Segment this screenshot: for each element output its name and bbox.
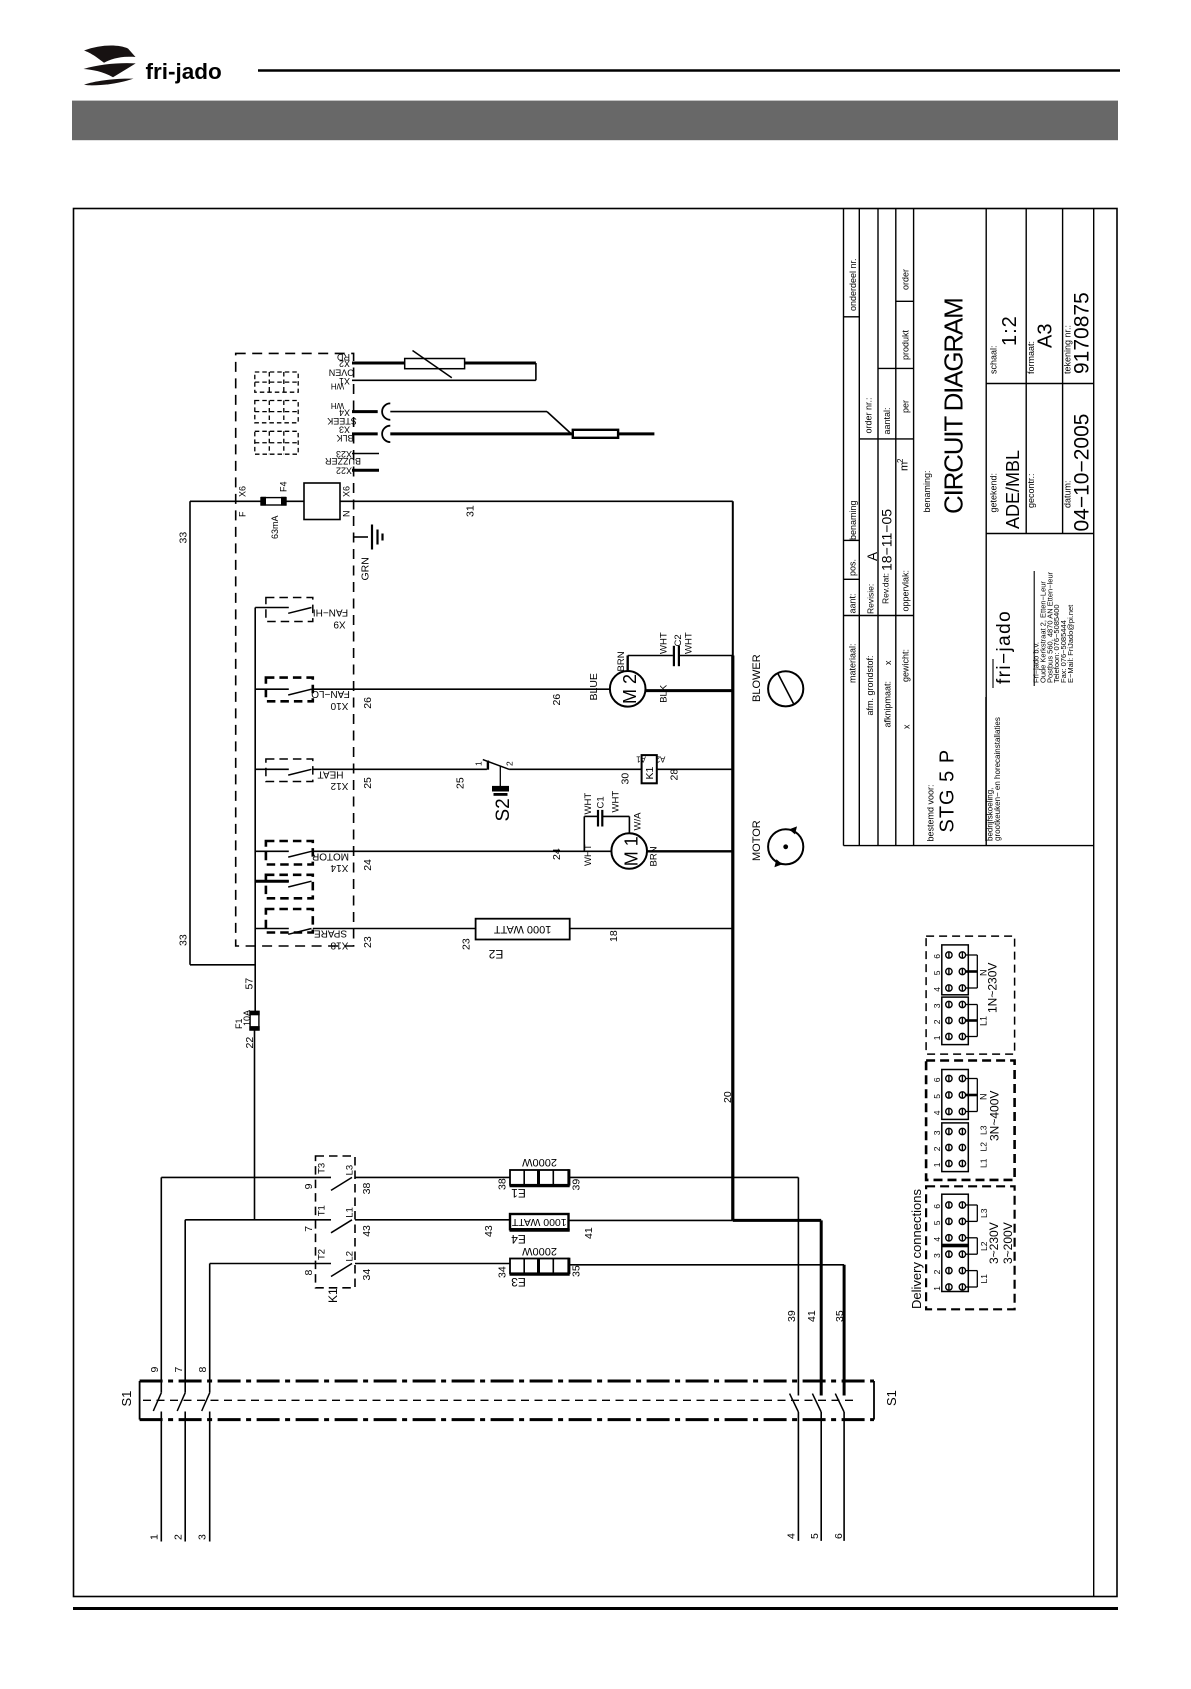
- svg-text:2: 2: [932, 1269, 942, 1274]
- svg-text:24: 24: [362, 859, 374, 871]
- svg-text:4: 4: [932, 987, 942, 992]
- svg-text:BLK: BLK: [336, 433, 353, 443]
- svg-text:3: 3: [197, 1534, 209, 1540]
- svg-text:S1: S1: [884, 1390, 899, 1406]
- svg-text:1N~230V: 1N~230V: [986, 963, 1000, 1013]
- svg-text:39: 39: [786, 1310, 798, 1322]
- svg-text:STEEK: STEEK: [327, 416, 357, 426]
- svg-text:STG 5 P: STG 5 P: [937, 749, 959, 833]
- svg-text:22: 22: [244, 1037, 256, 1049]
- svg-text:T1: T1: [317, 1205, 328, 1216]
- svg-text:X12: X12: [330, 780, 348, 791]
- svg-text:3~200V: 3~200V: [1001, 1222, 1015, 1264]
- svg-text:38: 38: [361, 1183, 373, 1195]
- svg-text:F4: F4: [279, 481, 289, 492]
- svg-text:T3: T3: [317, 1163, 328, 1174]
- svg-text:M 1: M 1: [622, 836, 642, 866]
- svg-text:2: 2: [896, 458, 905, 463]
- svg-text:1: 1: [932, 1035, 942, 1040]
- svg-text:pos.: pos.: [848, 559, 858, 576]
- svg-text:gewicht:: gewicht:: [901, 649, 911, 682]
- svg-text:25: 25: [455, 777, 467, 789]
- svg-text:5: 5: [932, 1220, 942, 1225]
- svg-text:WHT: WHT: [611, 791, 622, 813]
- svg-text:35: 35: [571, 1265, 583, 1277]
- svg-text:1: 1: [932, 1286, 942, 1291]
- svg-text:X6: X6: [238, 486, 248, 497]
- svg-text:WHT: WHT: [659, 632, 670, 654]
- svg-text:A2: A2: [655, 754, 665, 763]
- svg-text:2: 2: [505, 761, 515, 766]
- svg-text:L3: L3: [979, 1208, 989, 1218]
- svg-text:getekend:: getekend:: [989, 473, 999, 513]
- svg-text:L1: L1: [345, 1207, 356, 1218]
- svg-text:4: 4: [786, 1533, 798, 1539]
- svg-text:43: 43: [361, 1225, 373, 1237]
- svg-text:E4: E4: [511, 1232, 526, 1246]
- svg-text:7: 7: [173, 1367, 185, 1373]
- svg-text:9170875: 9170875: [1071, 292, 1094, 374]
- svg-text:L1: L1: [979, 1016, 989, 1026]
- svg-text:BUZZER: BUZZER: [324, 456, 361, 466]
- svg-text:grootkeuken− en horecainstalla: grootkeuken− en horecainstallaties: [993, 717, 1002, 841]
- svg-text:X9: X9: [333, 618, 346, 629]
- svg-text:9: 9: [149, 1367, 161, 1373]
- svg-text:X2: X2: [339, 359, 350, 369]
- svg-text:BRN: BRN: [649, 846, 660, 866]
- svg-text:31: 31: [465, 505, 477, 517]
- svg-text:6: 6: [932, 954, 942, 959]
- svg-text:FAN−HI: FAN−HI: [313, 606, 348, 617]
- svg-text:S2: S2: [493, 798, 514, 821]
- svg-text:WHT: WHT: [583, 844, 594, 866]
- svg-text:3: 3: [932, 1130, 942, 1135]
- svg-text:5: 5: [932, 1094, 942, 1099]
- svg-text:materiaal:: materiaal:: [848, 643, 858, 683]
- svg-text:aant:: aant:: [848, 593, 858, 613]
- svg-text:aantal:: aantal:: [882, 407, 892, 434]
- svg-text:33: 33: [178, 934, 190, 946]
- svg-text:18−11−05: 18−11−05: [879, 509, 895, 571]
- svg-text:S1: S1: [119, 1391, 134, 1407]
- svg-text:order: order: [901, 269, 911, 290]
- svg-text:GRN: GRN: [360, 557, 372, 580]
- svg-text:K1: K1: [326, 1288, 340, 1303]
- svg-text:K1: K1: [644, 766, 656, 779]
- svg-text:A1: A1: [636, 754, 646, 763]
- svg-text:L3: L3: [345, 1165, 356, 1176]
- svg-text:1000 WATT: 1000 WATT: [494, 923, 552, 935]
- svg-text:2: 2: [932, 1146, 942, 1151]
- svg-text:35: 35: [834, 1310, 846, 1322]
- svg-text:1: 1: [474, 761, 484, 766]
- svg-text:39: 39: [571, 1179, 583, 1191]
- svg-text:5: 5: [809, 1533, 821, 1539]
- svg-text:2: 2: [172, 1534, 184, 1540]
- svg-text:X10: X10: [330, 700, 348, 711]
- svg-text:schaal:: schaal:: [989, 345, 999, 374]
- svg-text:N: N: [342, 511, 352, 518]
- svg-text:33: 33: [178, 532, 190, 544]
- svg-text:43: 43: [483, 1225, 495, 1237]
- svg-text:A3: A3: [1035, 324, 1057, 348]
- svg-text:63mA: 63mA: [270, 515, 280, 539]
- svg-text:26: 26: [362, 697, 374, 709]
- svg-text:1: 1: [149, 1534, 161, 1540]
- svg-text:9: 9: [303, 1183, 315, 1189]
- svg-text:57: 57: [243, 978, 255, 990]
- svg-text:BLOWER: BLOWER: [751, 654, 763, 702]
- svg-text:6: 6: [833, 1533, 845, 1539]
- svg-text:WHT: WHT: [583, 793, 594, 815]
- svg-text:23: 23: [461, 938, 473, 950]
- svg-text:8: 8: [197, 1367, 209, 1373]
- svg-text:18: 18: [608, 930, 620, 942]
- svg-text:1:2: 1:2: [999, 315, 1021, 346]
- svg-text:41: 41: [583, 1227, 595, 1239]
- svg-text:X4: X4: [339, 407, 350, 417]
- svg-text:F: F: [238, 511, 248, 517]
- svg-text:W/A: W/A: [633, 812, 644, 831]
- svg-text:M 2: M 2: [620, 674, 640, 704]
- svg-text:WH: WH: [331, 381, 345, 390]
- svg-text:BRN: BRN: [616, 651, 627, 671]
- svg-text:4: 4: [932, 1110, 942, 1115]
- svg-text:10A: 10A: [242, 1010, 252, 1026]
- svg-text:BLUE: BLUE: [588, 673, 600, 700]
- svg-text:fri−jado: fri−jado: [994, 610, 1015, 684]
- svg-text:3: 3: [932, 1003, 942, 1008]
- svg-text:X18: X18: [330, 939, 348, 950]
- svg-text:L2: L2: [978, 1142, 988, 1152]
- svg-text:8: 8: [303, 1270, 315, 1276]
- svg-text:Rev.dat:: Rev.dat:: [881, 573, 891, 604]
- svg-text:X14: X14: [330, 862, 348, 873]
- svg-text:bestemd voor:: bestemd voor:: [926, 784, 936, 841]
- svg-text:E3: E3: [511, 1275, 526, 1289]
- svg-text:34: 34: [497, 1266, 509, 1278]
- svg-text:38: 38: [497, 1178, 509, 1190]
- svg-text:1: 1: [932, 1162, 942, 1167]
- svg-text:per: per: [901, 400, 911, 413]
- svg-text:2000W: 2000W: [521, 1245, 556, 1257]
- svg-text:C2: C2: [673, 634, 684, 646]
- svg-text:onderdeel nr.: onderdeel nr.: [848, 258, 858, 311]
- svg-text:5: 5: [932, 970, 942, 975]
- svg-text:30: 30: [620, 773, 632, 785]
- svg-text:BLK: BLK: [659, 684, 670, 703]
- svg-text:X22: X22: [336, 466, 352, 476]
- svg-text:ADE/MBL: ADE/MBL: [1003, 450, 1023, 529]
- svg-text:OVEN: OVEN: [329, 368, 355, 378]
- svg-text:Revisie:: Revisie:: [866, 584, 876, 614]
- svg-text:3~230V: 3~230V: [987, 1222, 1001, 1264]
- svg-text:23: 23: [362, 936, 374, 948]
- svg-text:MOTOR: MOTOR: [751, 820, 763, 861]
- svg-text:X6: X6: [342, 486, 352, 497]
- svg-text:benaming: benaming: [848, 500, 858, 540]
- svg-text:gecontr.:: gecontr.:: [1026, 473, 1036, 508]
- svg-text:3: 3: [932, 1253, 942, 1258]
- svg-text:WHT: WHT: [684, 632, 695, 654]
- svg-text:afm. grondstof:: afm. grondstof:: [865, 655, 875, 715]
- svg-text:E2: E2: [488, 947, 503, 961]
- svg-text:04−10−2005: 04−10−2005: [1071, 414, 1094, 532]
- svg-text:L1: L1: [979, 1274, 989, 1284]
- svg-text:7: 7: [303, 1226, 315, 1232]
- svg-text:Delivery connections: Delivery connections: [909, 1189, 924, 1309]
- svg-text:26: 26: [551, 694, 563, 706]
- svg-text:T2: T2: [317, 1249, 328, 1260]
- svg-text:x: x: [883, 660, 893, 665]
- svg-text:afknipmaat:: afknipmaat:: [883, 681, 893, 728]
- svg-text:4: 4: [932, 1237, 942, 1242]
- svg-text:2000W: 2000W: [521, 1156, 556, 1168]
- svg-text:oppervlak:: oppervlak:: [901, 570, 911, 612]
- svg-text:E1: E1: [511, 1186, 526, 1200]
- svg-text:28: 28: [669, 769, 681, 781]
- svg-text:CIRCUIT DIAGRAM: CIRCUIT DIAGRAM: [939, 298, 969, 514]
- svg-text:L2: L2: [345, 1251, 356, 1262]
- svg-text:34: 34: [361, 1269, 373, 1281]
- svg-text:order nr.:: order nr.:: [864, 397, 874, 433]
- svg-text:25: 25: [362, 777, 374, 789]
- svg-text:41: 41: [806, 1310, 818, 1322]
- svg-text:3N~400V: 3N~400V: [988, 1091, 1002, 1141]
- svg-text:24: 24: [551, 848, 563, 860]
- svg-text:20: 20: [722, 1091, 734, 1103]
- svg-text:benaming:: benaming:: [922, 470, 932, 512]
- svg-text:x: x: [902, 724, 912, 729]
- svg-text:2: 2: [932, 1019, 942, 1024]
- svg-text:fri-jado: fri-jado: [146, 59, 222, 84]
- svg-text:E−Mail: FriJado@pi.net: E−Mail: FriJado@pi.net: [1066, 604, 1075, 683]
- svg-text:6: 6: [932, 1077, 942, 1082]
- svg-text:C1: C1: [596, 796, 607, 808]
- svg-text:6: 6: [932, 1204, 942, 1209]
- svg-text:produkt: produkt: [901, 329, 911, 360]
- svg-text:1000 WATT: 1000 WATT: [511, 1216, 566, 1228]
- svg-text:L1: L1: [978, 1158, 988, 1168]
